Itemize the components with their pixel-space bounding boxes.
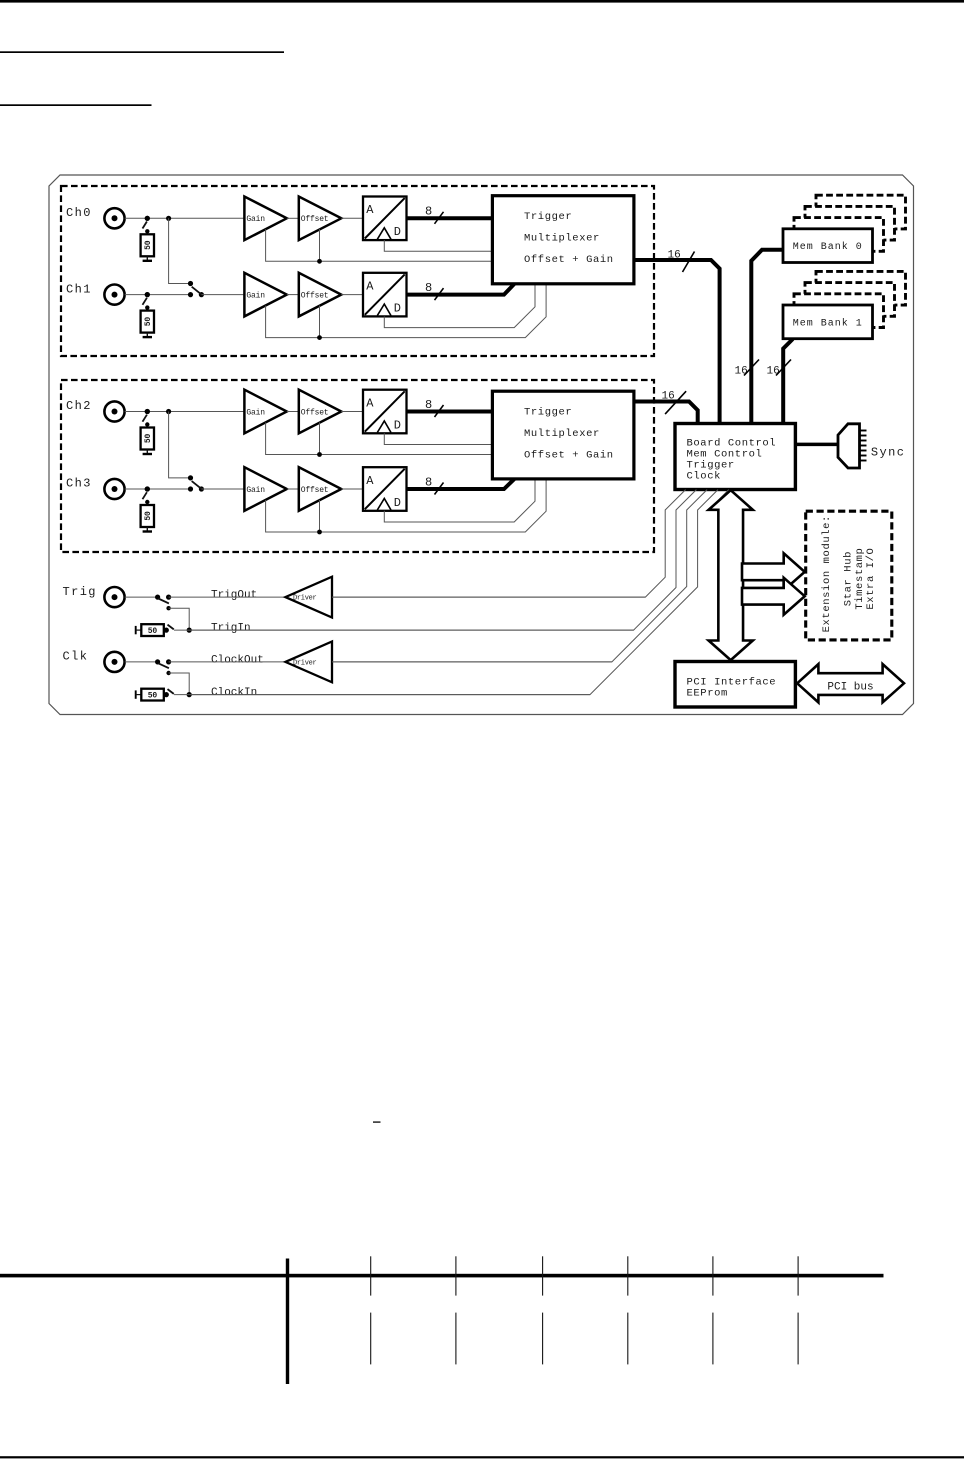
termination tick [135, 690, 137, 698]
svg-text:Trigger: Trigger [524, 406, 572, 418]
node branch Ch0 [166, 216, 171, 221]
ground [146, 527, 148, 532]
svg-text:Clock: Clock [687, 470, 722, 482]
offset amp Ch3 [299, 467, 342, 511]
sync pin 6 [860, 455, 867, 457]
sync pin 3 [860, 440, 867, 442]
wire selector-gain Ch3 [201, 488, 244, 490]
wire Ch2 input [125, 411, 245, 413]
bus 16 mem bank 0 to control [751, 250, 783, 424]
Mem Bank 1 stack shadow 3 [816, 271, 906, 305]
BNC connector Ch3 [104, 479, 124, 499]
gain/offset control wire Ch0 [266, 229, 493, 261]
driver amp TrigOut [285, 577, 332, 618]
bus 8 Ch3 [407, 479, 515, 489]
svg-text:Ch3: Ch3 [66, 477, 92, 491]
svg-text:50: 50 [144, 240, 153, 250]
svg-text:Offset: Offset [301, 215, 329, 224]
svg-text:D: D [394, 301, 403, 315]
wire control-sync [795, 443, 838, 447]
sync pin 7 [860, 460, 867, 462]
svg-text:50: 50 [148, 692, 158, 701]
svg-text:A: A [366, 396, 375, 410]
termination switch [145, 409, 150, 414]
bus 8 Ch0 [407, 216, 493, 220]
wire Clk bnc-switch [125, 661, 158, 663]
svg-text:Offset: Offset [301, 486, 329, 495]
resistor 50R [141, 689, 164, 701]
svg-text:16: 16 [735, 366, 748, 378]
wire control to ClockOut [332, 490, 707, 662]
BNC connector Clk [104, 652, 124, 672]
BNC connector Ch2 [104, 401, 124, 421]
wire offset-adc Ch3 [341, 488, 363, 490]
Mem Bank 0 front box [783, 229, 873, 263]
wire switch to TrigIn [169, 608, 190, 630]
ground [146, 256, 148, 261]
table column line 4 [627, 1256, 629, 1295]
ground [146, 450, 148, 455]
wire gain-offset Ch2 [287, 411, 299, 413]
svg-text:8: 8 [425, 398, 434, 412]
BNC connector Ch0 [104, 208, 124, 228]
ADC Ch2 [363, 390, 407, 434]
channel group box Ch2/Ch3 [61, 380, 654, 552]
wire Ch3 input [125, 488, 191, 490]
svg-text:A: A [366, 203, 375, 217]
svg-text:16: 16 [668, 249, 681, 261]
wire Ch0 input [125, 217, 245, 219]
wire control to TrigOut [332, 490, 686, 597]
wire ClockOut to control [332, 661, 612, 663]
resistor 50R [141, 428, 154, 450]
wire offset-adc Ch1 [341, 294, 363, 296]
sync connector J1 [838, 424, 860, 468]
svg-text:Gain: Gain [246, 291, 265, 300]
svg-text:Offset + Gain: Offset + Gain [524, 254, 614, 266]
wire control to ClockIn [189, 490, 718, 695]
resistor 50R [141, 505, 154, 527]
Mem Bank 0 stack shadow 2 [805, 206, 895, 240]
adc clock wire Ch2 [384, 433, 492, 444]
PCI interface block U11 [675, 662, 795, 708]
Mem Bank 1 stack shadow 2 [805, 283, 895, 317]
svg-text:A: A [366, 474, 375, 488]
gain amp Ch2 [244, 390, 286, 434]
svg-text:Trigger: Trigger [524, 211, 572, 223]
svg-text:Ch0: Ch0 [66, 206, 92, 220]
ADC Ch1 [363, 273, 407, 317]
svg-text:Ch2: Ch2 [66, 399, 92, 413]
table column line 3 [542, 1256, 544, 1295]
arrow control-PCI (bidirectional) [709, 490, 753, 660]
Mem Bank 1 front box [783, 305, 873, 339]
ADC Ch3 [363, 467, 407, 511]
gain amp Ch1 [244, 273, 286, 317]
ADC Ch0 [363, 197, 407, 241]
table column line 5 [712, 1256, 714, 1295]
wire Trig bnc-switch [125, 596, 158, 598]
svg-text:16: 16 [767, 366, 780, 378]
gain/offset control wire Ch3 [266, 479, 546, 532]
svg-text:50: 50 [144, 434, 153, 444]
Mem Bank 0 stack shadow 3 [816, 195, 906, 229]
page bottom rule [0, 1456, 964, 1458]
termination switch [145, 216, 150, 221]
svg-text:50: 50 [144, 511, 153, 521]
svg-text:ClockIn: ClockIn [211, 687, 257, 699]
svg-text:D: D [394, 225, 403, 239]
heading underline 2 [0, 104, 152, 106]
sync pin 1 [860, 430, 867, 432]
svg-text:16: 16 [662, 391, 675, 403]
resistor 50R [141, 311, 154, 333]
svg-text:Extension module:: Extension module: [821, 515, 833, 632]
svg-text:D: D [394, 496, 403, 510]
node branch Ch2 [166, 409, 171, 414]
adc clock wire Ch0 [384, 240, 492, 251]
wire selector-gain Ch1 [201, 294, 244, 296]
ground [146, 333, 148, 338]
bus 8 Ch1 [407, 284, 515, 295]
svg-text:TrigIn: TrigIn [211, 623, 251, 635]
table axis vertical [286, 1259, 289, 1385]
gain/offset control wire Ch1 [266, 284, 546, 338]
svg-text:Extra I/O: Extra I/O [865, 548, 877, 610]
wire switch to ClockIn [169, 673, 190, 695]
svg-text:Multiplexer: Multiplexer [524, 428, 600, 440]
svg-text:Offset: Offset [301, 291, 329, 300]
wire control to TrigIn [189, 490, 696, 630]
termination switch [164, 628, 169, 633]
board control block U10 [675, 424, 795, 490]
svg-text:Offset: Offset [301, 408, 329, 417]
termination switch [145, 486, 150, 491]
svg-text:D: D [394, 418, 403, 432]
table column line 6 [797, 1256, 799, 1295]
svg-text:PCI bus: PCI bus [827, 681, 873, 693]
driver amp ClockOut [285, 642, 332, 683]
svg-text:Trig: Trig [63, 585, 97, 599]
offset amp Ch0 [299, 197, 342, 241]
resistor 50R [141, 624, 164, 636]
table header rule [0, 1274, 884, 1278]
wire gain-offset Ch3 [287, 488, 299, 490]
svg-text:Gain: Gain [246, 408, 265, 417]
trigger multiplexer U (Ch2/Ch3) [492, 391, 634, 479]
switch Trig [155, 595, 160, 600]
termination tick [135, 626, 137, 634]
resistor 50R [141, 234, 154, 256]
termination switch [164, 692, 169, 697]
trigger multiplexer U (Ch0/Ch1) [492, 196, 634, 284]
svg-text:50: 50 [144, 317, 153, 327]
svg-text:Gain: Gain [246, 215, 265, 224]
wire offset-adc Ch0 [341, 217, 363, 219]
svg-text:A: A [366, 279, 375, 293]
svg-text:Driver: Driver [293, 595, 317, 603]
gain amp Ch3 [244, 467, 286, 511]
adc clock wire Ch1 [384, 284, 535, 328]
bus 16 mux1 to control [634, 402, 698, 424]
table column line 2 [455, 1256, 457, 1295]
Mem Bank 1 stack shadow 1 [794, 294, 884, 328]
svg-text:Driver: Driver [293, 660, 317, 668]
switch Clk [155, 659, 160, 664]
selector switch Ch1 [188, 281, 193, 286]
wire ClockIn to control [174, 694, 590, 696]
bus 8 Ch2 [407, 410, 493, 414]
svg-text:8: 8 [425, 281, 434, 295]
board outline (chamfered) [49, 175, 914, 715]
svg-text:Multiplexer: Multiplexer [524, 233, 600, 245]
stray underscore [373, 1121, 381, 1123]
svg-text:TrigOut: TrigOut [211, 590, 257, 602]
svg-text:Sync: Sync [871, 446, 905, 460]
extension module box (dashed) [806, 511, 892, 640]
wire TrigIn to control [174, 629, 634, 631]
svg-text:ClockOut: ClockOut [211, 654, 264, 666]
gain/offset control wire Ch2 [266, 423, 493, 455]
bus 16 mem bank 1 to control [783, 339, 793, 424]
table column line 1 [370, 1256, 372, 1295]
sync pin 2 [860, 435, 867, 437]
wire Ch1 input [125, 294, 191, 296]
wire offset-adc Ch2 [341, 411, 363, 413]
svg-text:Ch1: Ch1 [66, 282, 92, 296]
BNC connector Ch1 [104, 285, 124, 305]
sync pin 4 [860, 445, 867, 447]
svg-text:Offset + Gain: Offset + Gain [524, 450, 614, 462]
svg-text:Mem Bank 1: Mem Bank 1 [793, 317, 863, 329]
heading underline 1 [0, 51, 284, 53]
adc clock wire Ch3 [384, 479, 535, 522]
offset amp Ch2 [299, 390, 342, 434]
channel group box Ch0/Ch1 [61, 186, 654, 356]
bus 16 mux0 to control [634, 260, 720, 424]
sync pin 5 [860, 450, 867, 452]
wire TrigOut to control [332, 596, 645, 598]
page top rule [0, 0, 964, 3]
svg-text:EEProm: EEProm [687, 687, 728, 699]
svg-text:8: 8 [425, 205, 434, 219]
svg-text:50: 50 [148, 627, 158, 636]
offset amp Ch1 [299, 273, 342, 317]
arrow control-extension upper [742, 553, 805, 590]
svg-text:8: 8 [425, 475, 434, 489]
svg-text:Gain: Gain [246, 486, 265, 495]
svg-text:Clk: Clk [63, 650, 89, 664]
wire ClockOut [169, 661, 286, 663]
arrow PCI bus (bidirectional) [797, 664, 904, 702]
wire gain-offset Ch0 [287, 217, 299, 219]
termination switch [145, 292, 150, 297]
wire gain-offset Ch1 [287, 294, 299, 296]
selector switch Ch3 [188, 475, 193, 480]
svg-text:Mem Bank 0: Mem Bank 0 [793, 241, 863, 253]
Mem Bank 0 stack shadow 1 [794, 218, 884, 252]
arrow control-extension lower [742, 578, 805, 615]
wire control fan stub [712, 490, 729, 507]
svg-text:Star Hub: Star Hub [842, 551, 854, 606]
gain amp Ch0 [244, 197, 286, 241]
wire TrigOut [169, 596, 286, 598]
BNC connector Trig [104, 587, 124, 607]
